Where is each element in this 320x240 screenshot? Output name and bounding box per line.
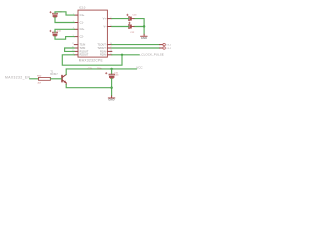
svg-text:T1OUT: T1OUT: [97, 43, 106, 47]
pin C2+: [74, 28, 78, 30]
pin T1OUT: [107, 44, 111, 46]
svg-text:4k7: 4k7: [38, 82, 42, 84]
svg-text:100n: 100n: [114, 75, 118, 77]
capacitor C11 (left bottom electrolytic) plates: [53, 32, 58, 33]
wire to ground: [143, 27, 145, 35]
svg-text:GND: GND: [141, 36, 147, 40]
pin C2-: [74, 36, 78, 38]
transistor T1 BC547: [62, 75, 66, 85]
wire R20 to base: [50, 78, 61, 80]
svg-text:VCC: VCC: [136, 65, 143, 69]
connector pin X3-2 circle: [163, 47, 166, 50]
svg-text:MAX3232CPE: MAX3232CPE: [79, 58, 103, 62]
junction emitter/ground: [110, 87, 112, 89]
svg-text:T2IN: T2IN: [80, 46, 86, 50]
emitter arm: [62, 80, 66, 85]
emitter arrow: [64, 81, 67, 84]
svg-text:R1IN: R1IN: [100, 49, 106, 53]
collector arm: [62, 75, 66, 78]
wire T1OUT to X3-1: [112, 44, 160, 46]
capacitor C12 (right bottom electrolytic) plates: [128, 25, 131, 29]
wire emitter net: [66, 85, 111, 88]
ground GND (top right): [143, 34, 145, 36]
pin V-: [107, 26, 111, 28]
connector pin X3-1 circle: [163, 43, 166, 46]
pin V+: [107, 18, 111, 20]
capacitor C15 plates: [109, 74, 114, 75]
wire cap top stub: [111, 69, 113, 74]
pin T1IN: [74, 44, 78, 46]
svg-text:GND: GND: [108, 98, 114, 102]
wire T2IN to R1OUT loopback: [65, 48, 75, 51]
svg-text:T2OUT: T2OUT: [97, 46, 106, 50]
pin stub of C12: [132, 26, 134, 28]
wire MAX3232_EN to R20: [30, 78, 39, 80]
svg-text:_CLOCK_PULSE: _CLOCK_PULSE: [139, 52, 164, 56]
pin R2OUT: [74, 54, 78, 56]
svg-text:MAX3232_EN: MAX3232_EN: [5, 76, 31, 80]
wire cap bottom to ground: [111, 79, 113, 96]
plus sign of C13: [127, 14, 129, 16]
svg-text:R2OUT: R2OUT: [80, 53, 89, 57]
svg-text:IC10: IC10: [79, 5, 86, 9]
junction V- / GND: [143, 25, 145, 27]
capacitor C13 (right top electrolytic) plates: [128, 17, 131, 21]
wire T2OUT to X3-2: [112, 47, 160, 49]
pin T2IN: [74, 47, 78, 49]
svg-text:X3-1: X3-1: [166, 44, 172, 46]
pin stub X3-2: [160, 47, 163, 49]
pin name labels inside IC: [80, 13, 107, 57]
svg-text:R1OUT: R1OUT: [80, 49, 89, 53]
svg-text:BC547: BC547: [50, 73, 58, 76]
junction R2IN branch: [121, 54, 123, 56]
wire V+ net: [112, 19, 144, 27]
svg-text:X3-2: X3-2: [166, 48, 172, 50]
pin stub of C13: [132, 18, 134, 20]
ground GND (bottom): [111, 96, 113, 98]
svg-text:T1IN: T1IN: [80, 43, 86, 47]
pin stub X3-1: [160, 44, 163, 46]
pin C1-: [74, 22, 78, 24]
wire C1- net: [55, 18, 74, 23]
resistor R20: [39, 77, 51, 80]
svg-text:C11: C11: [57, 31, 62, 33]
wire C1+ net: [55, 12, 74, 15]
svg-text:R2IN: R2IN: [100, 53, 106, 57]
wire R2IN-R2OUT loop: down, left, up: [62, 55, 122, 65]
IC IC10 MAX3232 body: [78, 10, 107, 57]
svg-text:C13: C13: [132, 15, 137, 17]
pin T2OUT: [107, 47, 111, 49]
svg-text:11: 11: [72, 43, 74, 45]
svg-text:C12: C12: [130, 32, 135, 34]
pin R1OUT: [74, 50, 78, 52]
svg-text:V-: V-: [103, 24, 106, 28]
pin C1+: [74, 14, 78, 16]
plus sign of C12: [129, 22, 131, 24]
svg-text:C2-: C2-: [80, 35, 84, 39]
pin number labels: [72, 14, 112, 56]
base bar: [61, 76, 63, 82]
pin R2IN: [107, 54, 111, 56]
svg-text:13: 13: [110, 50, 112, 52]
plus sign of C15: [105, 72, 107, 74]
svg-text:V+: V+: [103, 17, 107, 21]
plus sign of C11: [50, 30, 52, 32]
wire R2IN / _CLOCK_PULSE net: [112, 54, 139, 56]
svg-text:C2+: C2+: [80, 27, 85, 31]
wire collector / VCC net: [66, 69, 136, 75]
pin R1IN: [107, 50, 111, 52]
svg-text:C1+: C1+: [80, 13, 85, 17]
wire C2- net: [55, 36, 74, 39]
capacitor C10 (left top electrolytic) plates: [53, 13, 58, 14]
svg-text:C1-: C1-: [80, 20, 84, 24]
wire V- net: [112, 26, 144, 28]
plus sign of C10: [50, 11, 52, 13]
junction collector/cap: [110, 68, 112, 70]
wire C2+ net: [55, 29, 74, 32]
svg-text:100n: 100n: [97, 68, 103, 70]
